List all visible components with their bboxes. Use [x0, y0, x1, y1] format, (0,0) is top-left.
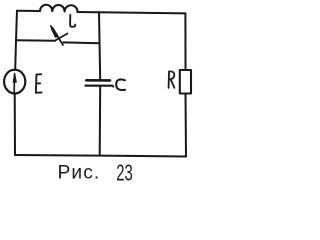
svg-text:Рис.: Рис.: [58, 162, 101, 183]
svg-text:23: 23: [116, 160, 133, 185]
